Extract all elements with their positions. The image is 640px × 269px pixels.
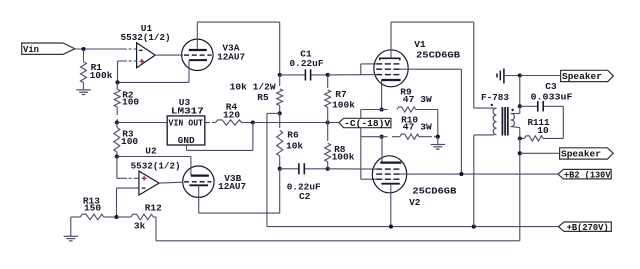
svg-text:100k: 100k bbox=[332, 100, 355, 111]
svg-text:GND: GND bbox=[178, 136, 195, 146]
svg-text:-C(-18)V: -C(-18)V bbox=[344, 118, 390, 129]
svg-text:100k: 100k bbox=[332, 151, 355, 162]
svg-text:VIN OUT: VIN OUT bbox=[169, 119, 204, 129]
svg-text:R7: R7 bbox=[335, 89, 347, 100]
svg-text:47 3W: 47 3W bbox=[403, 122, 432, 133]
svg-text:R5: R5 bbox=[257, 92, 269, 103]
svg-text:100: 100 bbox=[122, 97, 139, 108]
svg-text:5532(1/2): 5532(1/2) bbox=[121, 32, 171, 43]
svg-text:R6: R6 bbox=[287, 129, 299, 140]
svg-text:10: 10 bbox=[537, 125, 549, 136]
svg-text:Speaker: Speaker bbox=[562, 71, 602, 82]
svg-text:5532(1/2): 5532(1/2) bbox=[131, 160, 181, 171]
svg-text:3k: 3k bbox=[134, 221, 146, 232]
svg-text:0.033uF: 0.033uF bbox=[531, 91, 573, 102]
svg-text:+B2 (130V: +B2 (130V bbox=[564, 169, 611, 180]
svg-text:25CD6GB: 25CD6GB bbox=[412, 185, 456, 196]
svg-text:U2: U2 bbox=[145, 145, 157, 156]
svg-text:0.22uF: 0.22uF bbox=[290, 58, 324, 69]
svg-text:100: 100 bbox=[121, 136, 138, 147]
svg-text:12AU7: 12AU7 bbox=[218, 181, 246, 192]
svg-text:10k: 10k bbox=[286, 141, 303, 152]
svg-text:C2: C2 bbox=[299, 191, 311, 202]
svg-text:V1: V1 bbox=[414, 39, 426, 50]
svg-text:R12: R12 bbox=[145, 202, 162, 213]
svg-text:Speaker: Speaker bbox=[561, 149, 601, 160]
svg-text:120: 120 bbox=[223, 110, 240, 121]
svg-text:Vin: Vin bbox=[23, 44, 39, 55]
svg-text:F-783: F-783 bbox=[481, 92, 509, 103]
svg-text:47 3W: 47 3W bbox=[403, 94, 432, 105]
svg-text:+B(270V): +B(270V) bbox=[567, 222, 609, 233]
svg-text:150: 150 bbox=[84, 203, 101, 214]
svg-text:10k 1/2W: 10k 1/2W bbox=[230, 82, 276, 93]
svg-text:25CD6GB: 25CD6GB bbox=[416, 50, 460, 61]
svg-text:12AU7: 12AU7 bbox=[217, 51, 245, 62]
svg-text:V2: V2 bbox=[409, 197, 421, 208]
svg-text:100k: 100k bbox=[90, 70, 113, 81]
svg-text:LM317: LM317 bbox=[171, 106, 204, 117]
